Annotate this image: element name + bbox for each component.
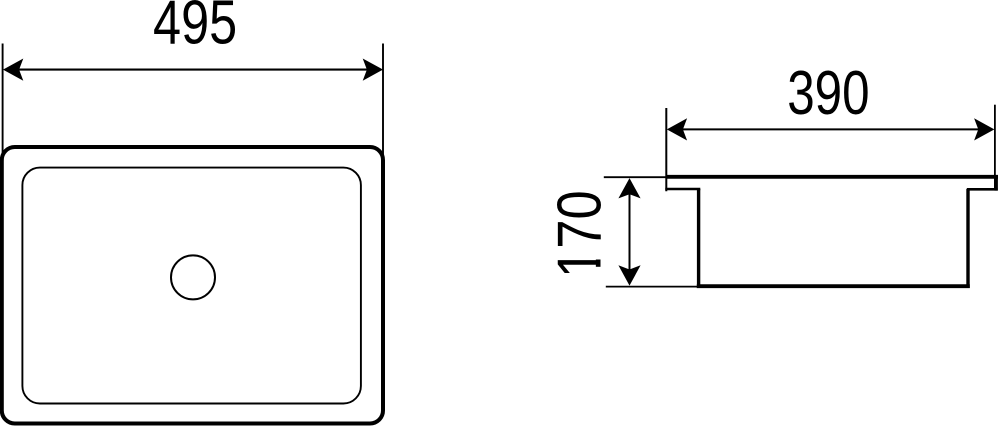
svg-text:495: 495 xyxy=(153,0,237,57)
svg-text:390: 390 xyxy=(787,57,869,127)
svg-text:170: 170 xyxy=(545,190,614,278)
